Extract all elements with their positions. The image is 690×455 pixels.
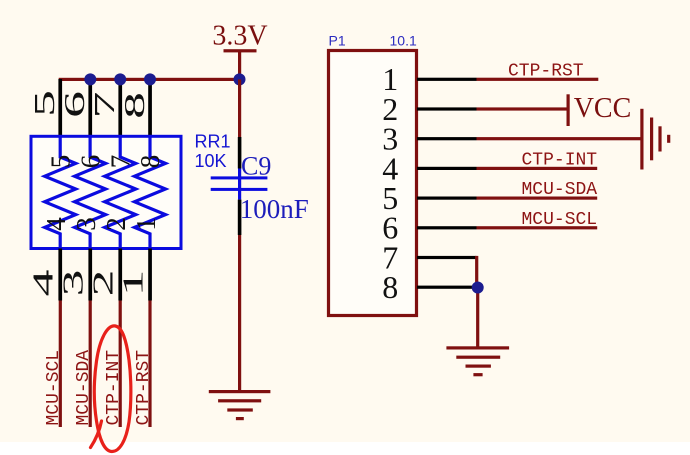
- svg-text:7: 7: [89, 92, 121, 119]
- svg-text:C9: C9: [241, 152, 271, 181]
- svg-text:1: 1: [131, 217, 161, 231]
- svg-text:8: 8: [135, 155, 165, 169]
- svg-text:6: 6: [75, 155, 105, 169]
- svg-text:2: 2: [88, 270, 120, 297]
- svg-text:P1: P1: [329, 33, 346, 49]
- svg-text:CTP-INT: CTP-INT: [104, 350, 124, 426]
- svg-text:MCU-SDA: MCU-SDA: [522, 180, 598, 200]
- svg-text:RR1: RR1: [195, 132, 231, 152]
- svg-text:VCC: VCC: [574, 93, 632, 124]
- svg-text:1: 1: [118, 270, 150, 297]
- svg-text:CTP-RST: CTP-RST: [508, 62, 584, 82]
- svg-text:4: 4: [41, 217, 71, 231]
- svg-text:5: 5: [29, 90, 61, 117]
- svg-text:6: 6: [59, 91, 91, 118]
- svg-text:8: 8: [382, 269, 398, 305]
- svg-text:CTP-RST: CTP-RST: [134, 350, 154, 426]
- svg-text:3: 3: [58, 270, 90, 297]
- svg-text:5: 5: [45, 155, 75, 169]
- svg-text:3: 3: [71, 217, 101, 231]
- svg-text:10K: 10K: [195, 151, 227, 171]
- svg-text:MCU-SCL: MCU-SCL: [522, 210, 598, 230]
- svg-text:MCU-SCL: MCU-SCL: [44, 350, 64, 426]
- svg-text:7: 7: [105, 155, 135, 169]
- svg-text:10.1: 10.1: [390, 33, 417, 49]
- svg-text:100nF: 100nF: [240, 194, 309, 224]
- svg-text:MCU-SDA: MCU-SDA: [74, 350, 94, 426]
- svg-text:CTP-INT: CTP-INT: [522, 150, 598, 170]
- svg-text:3.3V: 3.3V: [212, 21, 267, 52]
- svg-text:4: 4: [28, 270, 60, 297]
- svg-text:8: 8: [119, 92, 151, 119]
- svg-text:2: 2: [101, 217, 131, 231]
